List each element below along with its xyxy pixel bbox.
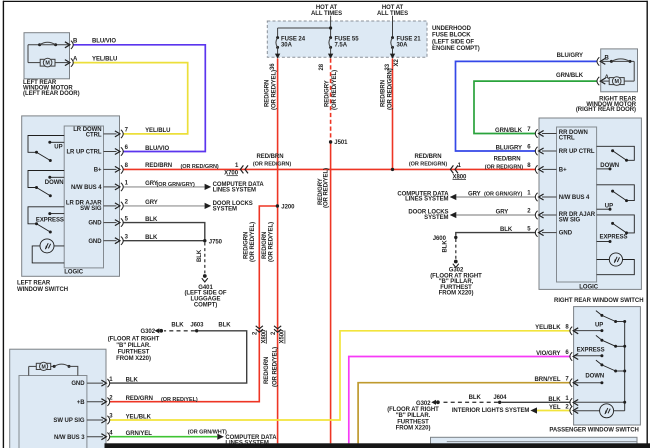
svg-text:(OR RED/YEL): (OR RED/YEL): [332, 70, 338, 110]
svg-text:GRY: GRY: [468, 191, 481, 197]
svg-text:(OR GRN/GRY): (OR GRN/GRY): [484, 191, 523, 197]
svg-text:DOWN: DOWN: [600, 163, 619, 169]
svg-text:YEL/BLK: YEL/BLK: [126, 414, 152, 420]
svg-text:EXPRESS: EXPRESS: [36, 218, 64, 224]
svg-text:UNDERHOOD: UNDERHOOD: [432, 26, 472, 32]
svg-text:BLK: BLK: [548, 397, 561, 403]
svg-text:RED/GRN: RED/GRN: [262, 232, 268, 259]
svg-text:GND: GND: [88, 221, 102, 227]
svg-text:G302: G302: [141, 329, 156, 335]
svg-text:J750: J750: [209, 239, 223, 245]
svg-text:YEL/BLU: YEL/BLU: [145, 128, 170, 134]
svg-text:WINDOW SWITCH: WINDOW SWITCH: [17, 287, 68, 293]
svg-text:YEL: YEL: [549, 405, 561, 411]
svg-text:B: B: [605, 55, 610, 61]
svg-text:(LEFT SIDE OF: (LEFT SIDE OF: [432, 39, 474, 45]
svg-text:YEL/BLU: YEL/BLU: [92, 56, 117, 62]
svg-text:FURTHEST: FURTHEST: [118, 350, 150, 356]
svg-text:RED/BRN: RED/BRN: [494, 157, 521, 163]
svg-text:N/W BUS 4: N/W BUS 4: [559, 195, 590, 201]
svg-text:36: 36: [270, 63, 276, 70]
svg-text:7.5A: 7.5A: [335, 43, 348, 49]
svg-text:GRN/YEL: GRN/YEL: [126, 431, 153, 437]
svg-text:(OR RED/GRN): (OR RED/GRN): [409, 162, 447, 168]
svg-text:B+: B+: [559, 168, 567, 174]
svg-text:RED/GRN: RED/GRN: [264, 357, 270, 384]
svg-text:N/W BUS 4: N/W BUS 4: [71, 185, 102, 191]
svg-text:(OR RED/YEL): (OR RED/YEL): [161, 397, 198, 403]
svg-text:RED/BRN: RED/BRN: [380, 80, 386, 107]
svg-text:COMPT): COMPT): [194, 302, 217, 308]
svg-text:ENGINE COMPT): ENGINE COMPT): [432, 46, 480, 52]
svg-text:CTRL: CTRL: [86, 133, 102, 139]
svg-text:BLK: BLK: [197, 249, 203, 262]
svg-text:BLK: BLK: [126, 377, 139, 383]
svg-text:J501: J501: [334, 140, 348, 146]
svg-text:FROM X220): FROM X220): [116, 356, 151, 362]
svg-text:GND: GND: [88, 239, 102, 245]
svg-text:LOGIC: LOGIC: [64, 269, 83, 275]
svg-text:CTRL: CTRL: [559, 135, 575, 141]
svg-text:(OR RED/GRN): (OR RED/GRN): [387, 68, 393, 110]
svg-text:RED/BRN: RED/BRN: [257, 154, 284, 160]
svg-text:EXPRESS: EXPRESS: [577, 348, 605, 354]
svg-text:M: M: [45, 61, 50, 67]
svg-text:A: A: [73, 56, 78, 62]
svg-text:BLK: BLK: [442, 240, 448, 253]
svg-text:BLK: BLK: [171, 323, 184, 329]
svg-text:LINES SYSTEM: LINES SYSTEM: [213, 187, 256, 193]
svg-text:GRN/BLK: GRN/BLK: [556, 73, 584, 79]
svg-text:SYSTEM: SYSTEM: [424, 215, 448, 221]
svg-text:UP: UP: [54, 145, 62, 151]
svg-text:RED/GRY: RED/GRY: [325, 80, 331, 107]
svg-text:LINES SYSTEM: LINES SYSTEM: [225, 441, 268, 447]
svg-text:X2: X2: [394, 59, 400, 67]
svg-text:30A: 30A: [281, 43, 293, 49]
svg-text:BLU/VIO: BLU/VIO: [145, 146, 169, 152]
svg-text:SW SIG: SW SIG: [80, 206, 102, 212]
svg-text:DOWN: DOWN: [585, 374, 604, 380]
svg-text:VIO/GRY: VIO/GRY: [536, 351, 560, 357]
svg-text:FROM X220): FROM X220): [439, 291, 474, 297]
svg-text:N/W BUS 3: N/W BUS 3: [54, 435, 85, 441]
svg-text:RED/GRN: RED/GRN: [126, 396, 153, 402]
svg-text:GRY: GRY: [145, 200, 158, 206]
svg-text:RED/BRN: RED/BRN: [145, 163, 172, 169]
svg-text:LEFT REAR: LEFT REAR: [17, 280, 51, 286]
svg-text:J604: J604: [493, 395, 507, 401]
svg-text:M: M: [41, 365, 45, 371]
svg-text:FROM X220): FROM X220): [396, 426, 431, 432]
svg-text:YEL/BLK: YEL/BLK: [535, 325, 561, 331]
svg-text:M: M: [614, 79, 619, 85]
svg-text:BLK: BLK: [469, 395, 482, 401]
svg-text:ALL TIMES: ALL TIMES: [311, 11, 342, 17]
svg-text:J603: J603: [190, 323, 204, 329]
svg-text:(OR RED/YEL): (OR RED/YEL): [271, 70, 277, 110]
svg-text:RR UP CTRL: RR UP CTRL: [559, 149, 595, 155]
svg-text:LOGIC: LOGIC: [579, 284, 598, 290]
svg-text:LR UP CTRL: LR UP CTRL: [66, 150, 101, 156]
svg-text:FURTHEST: FURTHEST: [397, 419, 429, 425]
svg-text:FUSE BLOCK: FUSE BLOCK: [432, 33, 471, 39]
svg-text:RED/GRN: RED/GRN: [243, 232, 249, 259]
svg-text:INTERIOR LIGHTS SYSTEM: INTERIOR LIGHTS SYSTEM: [452, 408, 530, 414]
svg-text:(OR RED/YEL): (OR RED/YEL): [323, 168, 329, 208]
svg-text:(OR RED/YEL): (OR RED/YEL): [269, 222, 275, 262]
svg-text:+B: +B: [77, 400, 85, 406]
svg-text:B+: B+: [94, 168, 102, 174]
svg-text:30A: 30A: [397, 43, 409, 49]
svg-text:SYSTEM: SYSTEM: [213, 206, 237, 212]
svg-text:PASSENGER WINDOW SWITCH: PASSENGER WINDOW SWITCH: [549, 428, 638, 434]
svg-text:BLK: BLK: [145, 235, 158, 241]
svg-text:(RIGHT REAR DOOR): (RIGHT REAR DOOR): [576, 107, 636, 113]
svg-text:(OR RED/GRN): (OR RED/GRN): [253, 162, 291, 168]
svg-text:BLU/VIO: BLU/VIO: [92, 39, 116, 45]
svg-text:BRN/YEL: BRN/YEL: [535, 377, 561, 383]
svg-text:GRN/BLK: GRN/BLK: [495, 128, 523, 134]
svg-text:(FLOOR AT RIGHT: (FLOOR AT RIGHT: [387, 407, 439, 413]
svg-text:(OR RED/GRN): (OR RED/GRN): [485, 164, 523, 170]
svg-text:DOWN: DOWN: [45, 180, 64, 186]
svg-text:(OR GRN/GRY): (OR GRN/GRY): [157, 182, 196, 188]
svg-text:RIGHT REAR WINDOW SWITCH: RIGHT REAR WINDOW SWITCH: [554, 298, 643, 304]
svg-text:(OR GRN/WHT): (OR GRN/WHT): [188, 429, 227, 435]
svg-text:J200: J200: [281, 204, 295, 210]
svg-text:SW UP SIG: SW UP SIG: [53, 418, 84, 424]
svg-text:B: B: [73, 39, 78, 45]
svg-text:"B" PILLAR.: "B" PILLAR.: [116, 343, 151, 349]
svg-text:"B" PILLAR.: "B" PILLAR.: [396, 413, 431, 419]
svg-text:BLU/GRY: BLU/GRY: [496, 145, 522, 151]
svg-text:BLK: BLK: [145, 217, 158, 223]
svg-text:(OR RED/YEL): (OR RED/YEL): [250, 222, 256, 262]
svg-text:EXPRESS: EXPRESS: [600, 234, 628, 240]
svg-text:(OR RED/YEL): (OR RED/YEL): [272, 347, 278, 387]
svg-text:LINES SYSTEM: LINES SYSTEM: [405, 197, 448, 203]
svg-text:28: 28: [319, 63, 325, 70]
svg-text:A: A: [605, 75, 610, 81]
svg-text:(FLOOR AT RIGHT: (FLOOR AT RIGHT: [108, 337, 160, 343]
svg-text:UP: UP: [605, 203, 613, 209]
svg-text:UP: UP: [595, 322, 603, 328]
svg-text:(OR RED/GRN): (OR RED/GRN): [181, 164, 219, 170]
svg-text:RED/BRN: RED/BRN: [415, 154, 442, 160]
svg-text:RED/GRN: RED/GRN: [264, 80, 270, 107]
svg-text:GRY: GRY: [496, 210, 509, 216]
svg-text:ALL TIMES: ALL TIMES: [377, 11, 408, 17]
svg-text:(LEFT REAR DOOR): (LEFT REAR DOOR): [23, 91, 80, 97]
svg-text:GND: GND: [71, 381, 85, 387]
svg-text:BLK: BLK: [218, 323, 231, 329]
svg-text:GND: GND: [559, 231, 573, 237]
svg-text:BLU/GRY: BLU/GRY: [557, 53, 583, 59]
svg-text:SW SIG: SW SIG: [559, 218, 581, 224]
svg-text:BLK: BLK: [500, 227, 513, 233]
